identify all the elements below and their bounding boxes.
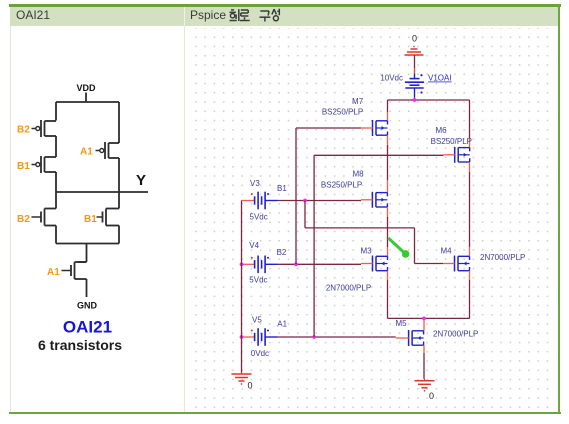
svg-text:10Vdc: 10Vdc [380, 74, 403, 83]
svg-text:6 transistors: 6 transistors [38, 337, 122, 353]
svg-text:2N7000/PLP: 2N7000/PLP [433, 330, 478, 339]
svg-text:B1: B1 [84, 214, 97, 225]
svg-text:B2: B2 [17, 125, 30, 136]
svg-text:BS250/PLP: BS250/PLP [431, 137, 472, 146]
svg-text:B2: B2 [277, 248, 287, 257]
svg-text:OAI21: OAI21 [63, 318, 112, 337]
svg-text:M3: M3 [360, 247, 372, 256]
svg-text:VDD: VDD [76, 83, 96, 93]
svg-text:2N7000/PLP: 2N7000/PLP [326, 284, 371, 293]
svg-text:Y: Y [136, 172, 146, 189]
svg-text:5Vdc: 5Vdc [250, 213, 268, 222]
svg-text:V3: V3 [250, 179, 260, 188]
svg-text:2N7000/PLP: 2N7000/PLP [480, 253, 525, 262]
svg-text:M8: M8 [352, 170, 364, 179]
svg-text:B1: B1 [277, 184, 287, 193]
svg-text:M4: M4 [440, 247, 452, 256]
svg-text:V1OAI: V1OAI [428, 74, 452, 83]
svg-text:0Vdc: 0Vdc [251, 349, 269, 358]
svg-text:5Vdc: 5Vdc [249, 276, 267, 285]
svg-text:0: 0 [412, 34, 417, 44]
svg-text:A1: A1 [47, 267, 60, 278]
svg-text:B2: B2 [17, 214, 30, 225]
svg-text:0: 0 [429, 391, 434, 401]
svg-text:B1: B1 [17, 161, 30, 172]
svg-text:A1: A1 [277, 320, 287, 329]
svg-text:BS250/PLP: BS250/PLP [322, 108, 363, 117]
svg-text:M5: M5 [395, 319, 407, 328]
svg-text:GND: GND [77, 301, 98, 311]
svg-text:V4: V4 [249, 241, 259, 250]
svg-text:V5: V5 [252, 316, 262, 325]
svg-text:BS250/PLP: BS250/PLP [321, 181, 362, 190]
svg-text:A1: A1 [80, 147, 93, 158]
svg-text:M6: M6 [435, 126, 447, 135]
svg-text:0: 0 [248, 381, 253, 391]
svg-text:M7: M7 [352, 97, 364, 106]
